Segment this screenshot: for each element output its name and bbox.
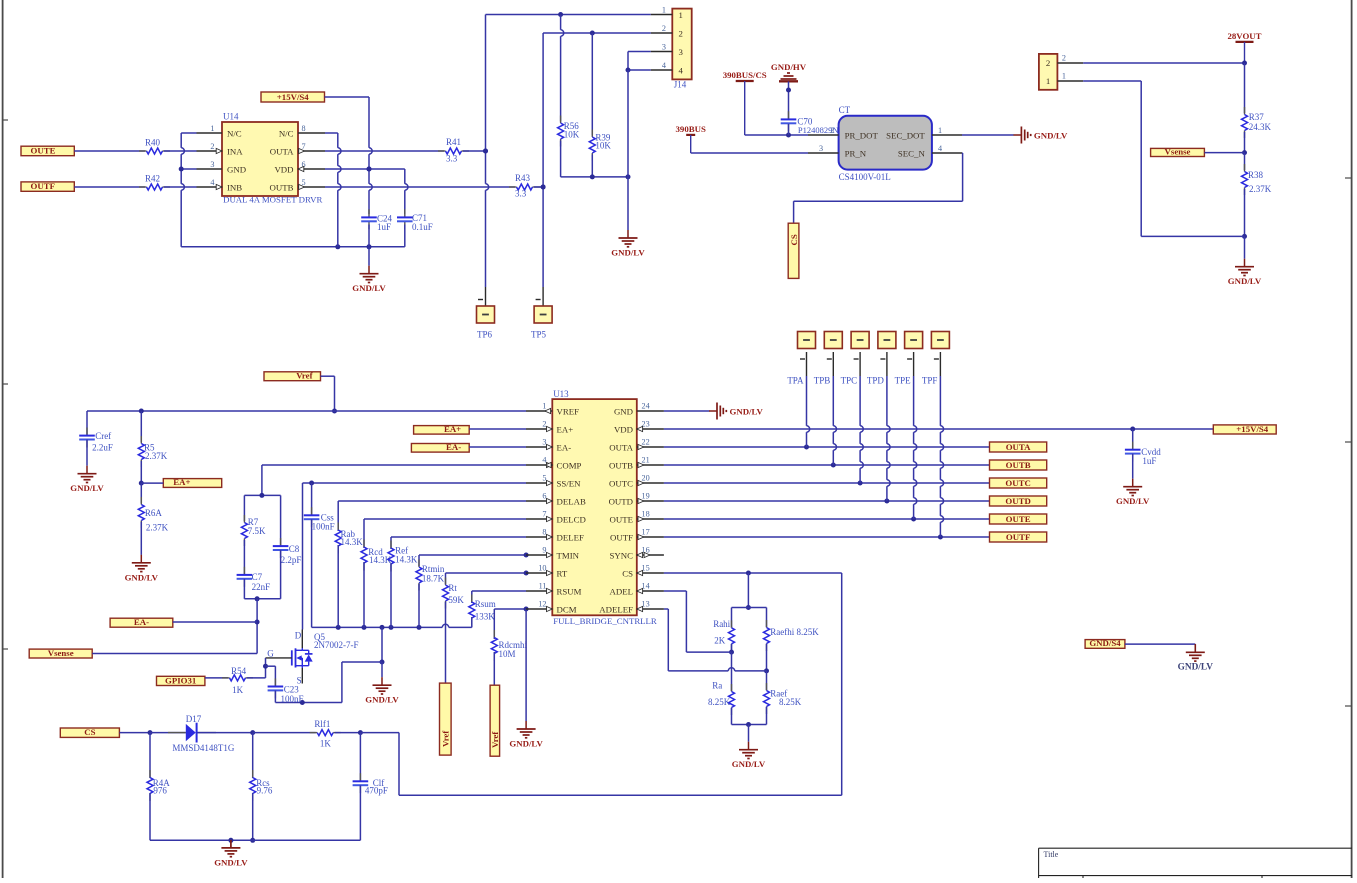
svg-text:21: 21 xyxy=(642,456,650,465)
svg-text:1uF: 1uF xyxy=(377,222,391,232)
test point TPB xyxy=(814,332,843,386)
wire R40 to U14 INA xyxy=(164,150,197,152)
wire C71 to loop xyxy=(404,225,406,247)
wire J14 pin2 rail xyxy=(543,31,651,36)
svg-text:3: 3 xyxy=(819,144,823,153)
svg-text:1: 1 xyxy=(938,126,942,135)
connector 2-pin output xyxy=(1039,54,1083,90)
net label CS left xyxy=(60,727,119,737)
wire pulldown rail xyxy=(561,174,631,179)
wire C70 to PR_DOT xyxy=(788,124,790,135)
svg-text:390BUS/CS: 390BUS/CS xyxy=(723,70,767,80)
svg-text:CS: CS xyxy=(789,234,799,245)
svg-text:24.3K: 24.3K xyxy=(1249,122,1272,132)
wire C7 to bottom node xyxy=(243,579,245,599)
svg-text:8.25K: 8.25K xyxy=(779,697,802,707)
svg-text:CS: CS xyxy=(84,727,95,737)
svg-text:G: G xyxy=(267,648,274,658)
wire C8 to bottom node xyxy=(280,550,282,599)
ground GND/LV below DCM xyxy=(509,721,543,749)
svg-text:GND/LV: GND/LV xyxy=(1034,130,1068,140)
svg-text:C8: C8 xyxy=(289,544,300,554)
svg-text:VDD: VDD xyxy=(274,164,293,174)
svg-text:OUTE: OUTE xyxy=(31,146,56,156)
svg-text:GND/LV: GND/LV xyxy=(611,248,645,258)
capacitor C23 xyxy=(268,678,304,703)
svg-text:GND/LV: GND/LV xyxy=(352,283,386,293)
svg-text:CS: CS xyxy=(622,568,633,578)
ground GND/LV below R6A xyxy=(125,555,159,583)
wire TPE to row xyxy=(914,376,917,519)
wire R6A to ground xyxy=(140,522,142,555)
test point TPF xyxy=(922,332,950,386)
svg-text:Vref: Vref xyxy=(490,731,500,748)
wire EA- net vertical xyxy=(255,599,260,654)
wire DELCD row xyxy=(364,518,526,520)
svg-text:OUTE: OUTE xyxy=(610,514,633,524)
wire CS net loop xyxy=(399,571,842,796)
svg-text:GND/LV: GND/LV xyxy=(365,695,399,705)
power port GND/HV xyxy=(771,62,807,82)
net label OUTE xyxy=(21,146,74,156)
wire GND pin24 xyxy=(664,410,710,412)
svg-text:0.1uF: 0.1uF xyxy=(412,222,433,232)
wire OUTE to R40 xyxy=(74,150,145,152)
net label Vref vertical 2 xyxy=(490,685,500,756)
resistor Ra xyxy=(708,652,735,715)
svg-text:R6A: R6A xyxy=(145,508,163,518)
svg-text:1: 1 xyxy=(542,402,546,411)
net label Vref vertical 1 xyxy=(440,683,452,755)
net label OUTF xyxy=(21,181,74,191)
net label +15V/S4 xyxy=(261,92,325,102)
wire DELAB row xyxy=(338,500,526,502)
svg-text:SS/EN: SS/EN xyxy=(557,478,582,488)
svg-text:MMSD4148T1G: MMSD4148T1G xyxy=(172,743,235,753)
svg-text:22nF: 22nF xyxy=(252,582,271,592)
capacitor C71 xyxy=(397,209,433,232)
svg-text:2.37K: 2.37K xyxy=(1249,184,1272,194)
wire timing rail xyxy=(312,624,472,630)
svg-text:2: 2 xyxy=(679,29,683,39)
wire ground rail bottom xyxy=(150,838,360,843)
svg-text:D17: D17 xyxy=(186,714,202,724)
resistor Rtmin xyxy=(416,555,445,591)
svg-text:R54: R54 xyxy=(231,666,247,676)
svg-text:TPB: TPB xyxy=(814,375,831,385)
wire OUTD row xyxy=(664,499,990,504)
svg-text:4: 4 xyxy=(210,178,214,187)
svg-text:8.25K: 8.25K xyxy=(708,697,731,707)
svg-text:4: 4 xyxy=(938,144,942,153)
connector J14 xyxy=(651,5,692,89)
node R7 C8 top xyxy=(244,493,280,498)
resistor Rahi xyxy=(713,608,734,652)
svg-text:Vref: Vref xyxy=(441,730,451,747)
svg-text:470pF: 470pF xyxy=(365,786,388,796)
resistor R38 xyxy=(1242,153,1272,195)
svg-text:18: 18 xyxy=(642,510,650,519)
net label GND/S4 xyxy=(1085,638,1125,648)
wire SEC_DOT to ground xyxy=(962,134,1014,136)
svg-text:GND/LV: GND/LV xyxy=(70,483,104,493)
svg-text:TP6: TP6 xyxy=(477,329,493,339)
wire Rahi to ADEL node xyxy=(729,644,734,655)
wire GND/S4 to ground xyxy=(1125,644,1195,652)
svg-text:7: 7 xyxy=(542,510,546,519)
wire OUTF to R42 xyxy=(74,186,145,188)
svg-text:R38: R38 xyxy=(1248,170,1264,180)
svg-text:Raefhi 8.25K: Raefhi 8.25K xyxy=(770,627,819,637)
svg-text:7.5K: 7.5K xyxy=(248,526,266,536)
wire Cref to ground xyxy=(86,440,88,466)
resistor R39 xyxy=(589,33,611,177)
wire +15V/S4 feed xyxy=(325,96,370,98)
svg-text:TPC: TPC xyxy=(841,375,858,385)
svg-text:14.3K: 14.3K xyxy=(341,537,364,547)
svg-text:GND/LV: GND/LV xyxy=(214,857,248,867)
svg-text:100nF: 100nF xyxy=(281,694,304,704)
svg-text:Title: Title xyxy=(1044,850,1059,859)
net label +15V/S4 right xyxy=(1213,424,1276,434)
capacitor C8 xyxy=(273,495,302,564)
wire Rtmin to rail xyxy=(418,584,420,627)
wire Q5 drain riser xyxy=(302,483,304,630)
svg-text:133K: 133K xyxy=(475,611,496,621)
svg-text:DUAL 4A MOSFET DRVR: DUAL 4A MOSFET DRVR xyxy=(223,194,322,204)
svg-text:DELEF: DELEF xyxy=(557,532,584,542)
svg-text:+15V/S4: +15V/S4 xyxy=(277,92,309,102)
wire TPF to row xyxy=(940,376,943,537)
svg-text:OUTE: OUTE xyxy=(1006,514,1031,524)
svg-text:C23: C23 xyxy=(284,684,300,694)
net label OUTC xyxy=(990,478,1047,488)
svg-text:2: 2 xyxy=(1062,54,1066,63)
svg-text:3: 3 xyxy=(679,47,684,57)
wire Ref to rail xyxy=(390,563,392,627)
svg-text:C7: C7 xyxy=(252,572,263,582)
capacitor Cvdd xyxy=(1125,429,1161,466)
wire RSUM row xyxy=(472,590,526,592)
net label EA- left xyxy=(110,617,173,627)
wire ADELEF path xyxy=(664,609,767,671)
svg-text:SEC_N: SEC_N xyxy=(898,148,926,158)
svg-text:8: 8 xyxy=(542,528,546,537)
svg-text:CT: CT xyxy=(839,105,851,115)
svg-text:Rahi: Rahi xyxy=(713,619,730,629)
wire R37 to Vsense node xyxy=(1242,132,1247,155)
svg-text:N/C: N/C xyxy=(227,128,242,138)
resistor Rdcmhi xyxy=(491,609,527,661)
svg-text:OUTB: OUTB xyxy=(270,182,294,192)
svg-text:EA-: EA- xyxy=(134,617,149,627)
svg-text:OUTA: OUTA xyxy=(270,146,294,156)
power port 390BUS xyxy=(676,124,706,153)
wire COMP riser xyxy=(261,465,263,495)
test point TPA xyxy=(787,332,815,386)
diode D17 xyxy=(168,714,235,753)
svg-text:20: 20 xyxy=(642,474,650,483)
svg-text:Rt: Rt xyxy=(448,583,457,593)
svg-text:4: 4 xyxy=(679,66,684,76)
wire OUTF row xyxy=(664,535,990,540)
svg-text:1K: 1K xyxy=(232,685,244,695)
node R7 C8 bottom xyxy=(244,596,280,601)
wire VDD to C71 xyxy=(405,169,408,214)
resistor R56 xyxy=(558,15,580,177)
svg-text:11: 11 xyxy=(539,582,547,591)
svg-text:GND/LV: GND/LV xyxy=(509,739,543,749)
wire GND/HV to C70 xyxy=(786,81,791,118)
svg-text:1: 1 xyxy=(1046,76,1050,86)
wire Rcs to rail xyxy=(250,793,255,843)
wire Rdcmhi to Vref label xyxy=(493,652,495,685)
svg-text:R43: R43 xyxy=(515,173,531,183)
svg-text:OUTF: OUTF xyxy=(610,532,633,542)
wire rail to ground node xyxy=(380,627,385,664)
svg-text:DCM: DCM xyxy=(557,604,577,614)
svg-text:390BUS: 390BUS xyxy=(676,124,706,134)
wire VDD row xyxy=(664,427,1213,432)
ground GND/LV sideways at pin24 xyxy=(709,403,764,420)
svg-text:DELAB: DELAB xyxy=(557,496,586,506)
svg-text:1: 1 xyxy=(679,10,683,20)
resistor Rcs xyxy=(250,733,273,801)
wire EA+ node to label xyxy=(141,482,163,484)
wire 28VOUT to R37 xyxy=(1244,63,1246,113)
resistor Rcd xyxy=(361,519,392,571)
wire R43 to node xyxy=(534,185,546,190)
net label OUTA xyxy=(990,442,1047,452)
sheet border left xyxy=(3,0,8,878)
capacitor Css xyxy=(304,483,335,532)
wire U14 VDD pin6 xyxy=(325,167,405,172)
svg-text:J14: J14 xyxy=(674,80,687,90)
ground GND/LV bottom rail xyxy=(214,840,248,868)
wire ground loop under U14 xyxy=(181,244,405,249)
wire loop to ground xyxy=(368,247,370,266)
wire R38 to bottom node xyxy=(1242,189,1247,239)
net label OUTD xyxy=(990,496,1047,506)
svg-text:OUTD: OUTD xyxy=(1005,496,1030,506)
sheet border right xyxy=(1345,0,1352,878)
ground GND/LV below R38 xyxy=(1228,259,1262,287)
svg-text:8: 8 xyxy=(302,124,306,133)
test point TPE xyxy=(895,332,923,386)
svg-text:U13: U13 xyxy=(553,389,569,399)
wire Rcd to rail xyxy=(363,562,365,627)
wire U14 pin8 N/C xyxy=(325,132,338,134)
svg-text:Cref: Cref xyxy=(95,431,111,441)
wire gate node to C23 xyxy=(266,666,276,685)
wire DCM to ground xyxy=(525,609,527,721)
svg-text:Vsense: Vsense xyxy=(48,648,74,658)
svg-text:EA-: EA- xyxy=(557,442,572,452)
wire OUTB row xyxy=(664,463,990,468)
resistor R5 xyxy=(138,411,167,467)
svg-text:GND/LV: GND/LV xyxy=(730,406,764,416)
svg-text:2: 2 xyxy=(830,126,834,135)
wire TPD to row xyxy=(887,376,890,501)
svg-text:EA-: EA- xyxy=(446,442,461,452)
svg-text:R41: R41 xyxy=(446,137,461,147)
wire pin2 to 28VOUT node xyxy=(1083,61,1247,66)
svg-text:FULL_BRIDGE_CNTRLLR: FULL_BRIDGE_CNTRLLR xyxy=(553,616,657,626)
resistor Rab xyxy=(335,501,363,554)
svg-text:R42: R42 xyxy=(145,173,160,183)
svg-text:3: 3 xyxy=(542,438,546,447)
svg-text:18.7K: 18.7K xyxy=(422,574,445,584)
svg-text:TP5: TP5 xyxy=(531,329,547,339)
svg-text:Rtmin: Rtmin xyxy=(422,564,445,574)
wire Rsum to rail xyxy=(471,617,473,627)
svg-text:22: 22 xyxy=(642,438,650,447)
svg-text:2.2pF: 2.2pF xyxy=(281,555,302,565)
wire CS to divider top xyxy=(746,573,751,610)
resistor Ref xyxy=(388,537,418,572)
svg-text:Vsense: Vsense xyxy=(1165,146,1191,156)
wire Cvdd to ground xyxy=(1132,454,1134,479)
resistor R37 xyxy=(1242,107,1272,138)
svg-text:U14: U14 xyxy=(223,112,239,122)
svg-text:GND: GND xyxy=(227,164,246,174)
svg-text:2K: 2K xyxy=(714,635,726,645)
svg-text:2: 2 xyxy=(662,24,666,33)
svg-text:+15V/S4: +15V/S4 xyxy=(1236,424,1268,434)
svg-text:2: 2 xyxy=(210,142,214,151)
ground GND/LV below Cvdd xyxy=(1116,479,1150,507)
svg-text:DELCD: DELCD xyxy=(557,514,586,524)
svg-text:1: 1 xyxy=(210,124,214,133)
svg-text:2.2uF: 2.2uF xyxy=(92,443,113,453)
svg-text:R40: R40 xyxy=(145,138,161,148)
wire TMIN row xyxy=(419,553,529,558)
svg-text:4: 4 xyxy=(662,61,666,70)
wire DELEF row xyxy=(391,536,526,538)
svg-text:28VOUT: 28VOUT xyxy=(1227,31,1261,41)
svg-text:PR_DOT: PR_DOT xyxy=(845,130,879,140)
svg-text:2.37K: 2.37K xyxy=(145,451,168,461)
svg-text:OUTC: OUTC xyxy=(1005,478,1030,488)
wire GPIO31 to R54 xyxy=(205,677,228,679)
node divider top xyxy=(732,607,767,609)
wire Raefhi to ADELEF node xyxy=(764,644,769,673)
svg-text:2.37K: 2.37K xyxy=(146,522,169,532)
net label Vsense right xyxy=(1151,146,1205,156)
wire DCM row xyxy=(494,607,528,612)
wire U14 OUTB to R43 xyxy=(325,186,515,188)
svg-text:GND/S4: GND/S4 xyxy=(1089,638,1121,648)
wire D17 to Rcs node xyxy=(198,730,256,735)
svg-text:R37: R37 xyxy=(1249,112,1265,122)
op-amp U13 FULL_BRIDGE_CNTRLLR xyxy=(526,389,664,626)
svg-text:OUTD: OUTD xyxy=(609,496,633,506)
svg-text:10K: 10K xyxy=(564,129,580,139)
wire Vsense to node xyxy=(1204,152,1244,154)
wire R54 to gate node xyxy=(247,677,266,679)
resistor R42 xyxy=(139,173,170,190)
net label OUTB xyxy=(990,460,1047,470)
svg-text:SYNC: SYNC xyxy=(610,550,634,560)
ground GND/LV sideways at SEC_DOT xyxy=(1013,127,1068,144)
svg-text:COMP: COMP xyxy=(557,460,582,470)
wire Rlf1 to Clf node xyxy=(335,730,399,735)
resistor R4A xyxy=(147,733,170,801)
wire Vref label drop xyxy=(321,376,338,413)
svg-text:976: 976 xyxy=(153,785,167,795)
svg-text:GND/LV: GND/LV xyxy=(1228,276,1262,286)
svg-text:3: 3 xyxy=(662,42,666,51)
svg-text:Rsum: Rsum xyxy=(475,599,496,609)
wire to ground J14 xyxy=(627,70,629,230)
svg-text:1: 1 xyxy=(662,5,666,14)
resistor Rsum xyxy=(469,591,496,626)
net label GPIO31 xyxy=(157,675,205,685)
svg-text:INB: INB xyxy=(227,182,242,192)
wire J14 pin4 xyxy=(626,68,651,73)
test point TP6 xyxy=(477,287,495,339)
resistor Rlf1 xyxy=(310,719,341,748)
wire SEC_N to CS label xyxy=(794,153,963,223)
transistor Q5 2N7002-7-F xyxy=(267,630,358,686)
wire Rt to Vref label xyxy=(445,602,447,683)
svg-text:GND/LV: GND/LV xyxy=(732,759,766,769)
svg-text:Ra: Ra xyxy=(712,680,722,690)
wire EA- row xyxy=(173,621,257,623)
resistor R41 xyxy=(438,137,469,164)
wire ADEL path xyxy=(664,591,732,652)
capacitor C24 xyxy=(361,209,392,232)
svg-text:OUTB: OUTB xyxy=(1006,460,1031,470)
wire U14 pin1 N/C xyxy=(181,132,196,134)
resistor R54 xyxy=(222,666,253,695)
wire C23 to source rail xyxy=(274,691,276,703)
svg-text:17: 17 xyxy=(642,528,650,537)
transformer CT CS4100V-01L xyxy=(808,105,962,182)
svg-text:RSUM: RSUM xyxy=(557,586,582,596)
svg-text:10M: 10M xyxy=(499,649,516,659)
svg-text:59K: 59K xyxy=(448,595,464,605)
capacitor Cref xyxy=(79,411,113,453)
wire EA+ to pin2 xyxy=(469,428,526,430)
wire node to Rlf1 xyxy=(253,732,316,734)
wire CS to D17 xyxy=(119,730,185,735)
svg-text:3.3: 3.3 xyxy=(515,189,527,199)
svg-text:14.3K: 14.3K xyxy=(395,555,418,565)
svg-text:9.76: 9.76 xyxy=(257,786,273,796)
svg-text:VDD: VDD xyxy=(614,424,633,434)
svg-text:EA+: EA+ xyxy=(444,424,461,434)
wire Clf to rail xyxy=(359,785,361,840)
svg-text:9: 9 xyxy=(542,546,546,555)
svg-text:12: 12 xyxy=(538,600,546,609)
title block xyxy=(1039,848,1352,878)
resistor R40 xyxy=(139,138,170,154)
net label Vref xyxy=(264,371,321,381)
svg-text:10: 10 xyxy=(538,564,546,573)
resistor R7 xyxy=(241,495,266,546)
wire OUTC row xyxy=(664,481,990,486)
svg-text:GPIO31: GPIO31 xyxy=(165,675,196,685)
svg-text:1K: 1K xyxy=(320,738,332,748)
resistor Rt xyxy=(443,573,465,609)
wire J14 pin3 xyxy=(628,52,651,71)
capacitor Clf xyxy=(353,733,388,796)
svg-text:CS4100V-01L: CS4100V-01L xyxy=(839,172,891,182)
svg-text:EA+: EA+ xyxy=(173,477,190,487)
svg-text:Rlf1: Rlf1 xyxy=(314,719,330,729)
svg-text:OUTF: OUTF xyxy=(31,181,55,191)
